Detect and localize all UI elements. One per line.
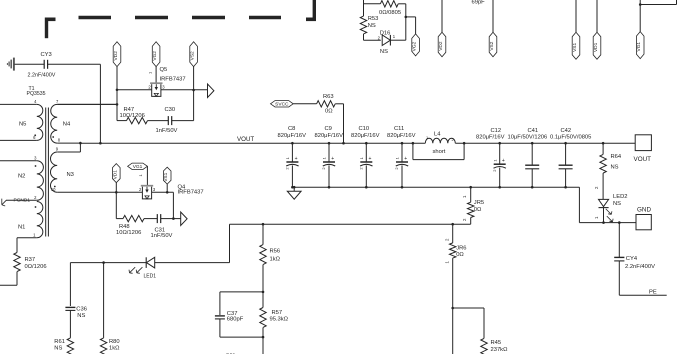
- svg-text:VG1: VG1: [636, 42, 642, 52]
- node C10 top: [365, 142, 368, 145]
- capacitor C37: [215, 311, 244, 323]
- svg-text:10: 10: [51, 187, 56, 192]
- transformer winding N3: [50, 143, 116, 192]
- wire: [48, 64, 101, 143]
- svg-text:IRFB7437: IRFB7437: [178, 190, 204, 196]
- node pin8-9: [79, 142, 82, 145]
- svg-text:C42: C42: [561, 128, 572, 134]
- transistor Q4: [138, 174, 204, 199]
- capacitor C8: [278, 126, 307, 187]
- svg-text:3: 3: [153, 187, 156, 192]
- wire: [117, 89, 152, 91]
- svg-text:GND: GND: [637, 207, 651, 214]
- svg-text:2: 2: [594, 186, 599, 189]
- svg-text:VD1: VD1: [593, 42, 599, 52]
- wire: [57, 103, 117, 105]
- net flag VD1: [112, 164, 120, 183]
- node VD1: [115, 191, 118, 194]
- transistor Q5: [147, 67, 185, 96]
- svg-text:1: 1: [138, 174, 143, 177]
- svg-text:VS1: VS1: [163, 172, 169, 181]
- svg-text:2: 2: [394, 167, 399, 170]
- node C37 top: [262, 291, 265, 294]
- svg-text:NS: NS: [77, 313, 85, 319]
- wire: [364, 34, 381, 40]
- capacitor C36: [65, 307, 87, 320]
- resistor JR5: [462, 187, 484, 224]
- wire: [390, 4, 405, 40]
- svg-text:820μF/16V: 820μF/16V: [278, 133, 307, 139]
- wire: [173, 218, 180, 220]
- capacitor C12: [476, 128, 506, 187]
- net flag VG1: [128, 163, 148, 170]
- svg-text:R64: R64: [611, 154, 622, 160]
- node LED2 bottom: [602, 221, 605, 224]
- net flag VS2: [489, 32, 497, 57]
- wire: [492, 0, 494, 32]
- svg-text:820μF/16V: 820μF/16V: [315, 133, 344, 139]
- svg-text:1: 1: [426, 135, 429, 140]
- svg-text:3: 3: [34, 155, 37, 160]
- node C12 bottom: [498, 186, 501, 189]
- svg-text:N3: N3: [67, 172, 74, 178]
- wire: [193, 67, 195, 90]
- svg-text:8: 8: [58, 138, 61, 143]
- svg-text:R56: R56: [270, 248, 281, 254]
- net flag VG2: [152, 42, 160, 67]
- wire: [220, 336, 263, 338]
- svg-text:2.2nF/400V: 2.2nF/400V: [625, 264, 655, 270]
- svg-text:N1: N1: [18, 225, 25, 231]
- wire: [0, 272, 17, 286]
- svg-text:R57: R57: [272, 310, 283, 316]
- inductor L4: [425, 131, 455, 143]
- svg-text:2: 2: [321, 167, 326, 170]
- port GND: [636, 207, 651, 230]
- node L4 left: [412, 142, 415, 145]
- wire: [229, 224, 231, 262]
- svg-text:680pF: 680pF: [227, 317, 244, 323]
- svg-text:2: 2: [285, 167, 290, 170]
- wire: [220, 291, 263, 293]
- node C11 bottom: [401, 186, 404, 189]
- wire: [103, 263, 105, 338]
- svg-text:C36: C36: [76, 307, 87, 313]
- svg-text:R37: R37: [25, 257, 36, 263]
- transformer T1 core: [27, 86, 49, 237]
- node C8 bottom: [291, 186, 294, 189]
- node C42 top: [564, 142, 567, 145]
- svg-text:2: 2: [139, 187, 142, 192]
- node JR6 top: [451, 223, 454, 226]
- svg-text:PE: PE: [649, 290, 657, 296]
- node LED1 left: [102, 261, 105, 264]
- svg-text:VOUT: VOUT: [634, 156, 652, 163]
- wire: [452, 308, 454, 354]
- svg-text:JR5: JR5: [474, 200, 484, 206]
- node C12 top: [498, 142, 501, 145]
- node R63: [342, 142, 345, 145]
- net flag VG1: [636, 32, 644, 59]
- svg-text:C30: C30: [165, 107, 176, 113]
- node R56 top: [262, 223, 265, 226]
- node C41 top: [531, 142, 534, 145]
- svg-text:7: 7: [56, 99, 59, 104]
- node C37 bottom: [262, 336, 265, 339]
- capacitor C11: [387, 126, 416, 187]
- svg-text:PQ3535: PQ3535: [27, 91, 46, 97]
- net flag VS2: [190, 42, 198, 67]
- svg-text:+: +: [331, 156, 334, 162]
- svg-text:N5: N5: [19, 122, 26, 128]
- svg-text:1kΩ: 1kΩ: [270, 257, 281, 263]
- net flag VD2: [113, 42, 121, 67]
- off-page connector: [181, 212, 187, 226]
- label 69pF: [472, 0, 486, 5]
- wire: [640, 0, 676, 5]
- svg-text:10Ω/1206: 10Ω/1206: [116, 230, 141, 236]
- wire: [406, 17, 416, 34]
- svg-text:short: short: [433, 149, 446, 155]
- svg-text:237kΩ: 237kΩ: [491, 347, 509, 353]
- svg-text:9: 9: [56, 147, 59, 152]
- svg-text:1: 1: [393, 34, 396, 39]
- svg-text:SVCC: SVCC: [275, 102, 289, 108]
- node railA: [99, 142, 102, 145]
- svg-text:D16: D16: [380, 31, 391, 37]
- svg-text:4: 4: [34, 99, 37, 104]
- wire: [116, 67, 118, 121]
- net PGND1: [2, 198, 31, 206]
- svg-text:0Ω/1206: 0Ω/1206: [25, 264, 47, 270]
- svg-text:+: +: [502, 158, 505, 164]
- svg-text:NS: NS: [611, 165, 619, 171]
- wire: [262, 337, 264, 354]
- wire: [69, 310, 71, 338]
- svg-text:R48: R48: [119, 224, 130, 230]
- svg-text:R80: R80: [109, 339, 120, 345]
- wire: [116, 191, 142, 193]
- wire: [453, 308, 484, 338]
- svg-text:1: 1: [285, 156, 290, 159]
- node C31 right: [172, 217, 175, 220]
- svg-text:2: 2: [359, 167, 364, 170]
- resistor R47: [117, 107, 148, 124]
- svg-text:95.3kΩ: 95.3kΩ: [270, 316, 289, 322]
- svg-text:1: 1: [359, 156, 364, 159]
- node C41 bottom: [531, 186, 534, 189]
- wire: [292, 186, 579, 188]
- svg-text:L4: L4: [434, 131, 441, 137]
- svg-text:1kΩ: 1kΩ: [109, 346, 120, 352]
- wire: [161, 89, 207, 91]
- node CY4 top: [618, 221, 621, 224]
- LED LED1: [129, 257, 156, 279]
- svg-text:0Ω: 0Ω: [325, 108, 333, 114]
- node VS1: [166, 191, 169, 194]
- wire: [70, 262, 146, 264]
- resistor R56: [260, 224, 281, 292]
- wire short bypass: [413, 143, 464, 159]
- resistor R37: [14, 253, 47, 272]
- svg-text:C10: C10: [359, 126, 370, 132]
- net flag VD1: [593, 32, 601, 59]
- svg-text:3: 3: [162, 84, 165, 89]
- node L4 right: [463, 142, 466, 145]
- wire: [146, 166, 148, 185]
- svg-text:Q5: Q5: [160, 67, 168, 73]
- node JR5 top: [469, 186, 472, 189]
- svg-text:N4: N4: [63, 122, 71, 128]
- node R64 top: [602, 142, 605, 145]
- wire: [219, 319, 221, 337]
- wire: [155, 262, 230, 264]
- net flag VS1: [163, 167, 171, 184]
- svg-text:2: 2: [444, 238, 449, 241]
- node C9 top: [328, 142, 331, 145]
- wire: [166, 184, 168, 192]
- svg-text:0Ω: 0Ω: [474, 207, 482, 213]
- node VD2-pin2: [116, 89, 119, 92]
- svg-text:LED1: LED1: [144, 274, 157, 280]
- svg-text:1: 1: [322, 156, 327, 159]
- capacitor C10: [351, 126, 380, 187]
- capacitor C9: [315, 126, 344, 187]
- svg-text:VD1: VD1: [112, 170, 118, 180]
- resistor R63: [293, 94, 343, 143]
- svg-text:NS: NS: [380, 49, 388, 55]
- svg-text:VOUT: VOUT: [237, 136, 254, 143]
- capacitor CY4: [614, 223, 655, 296]
- transformer winding N5: [0, 99, 43, 141]
- port VOUT: [634, 135, 652, 163]
- resistor R61: [54, 338, 73, 354]
- wire: [230, 223, 471, 225]
- dashed module boundary: [46, 0, 316, 38]
- svg-text:JR6: JR6: [456, 246, 466, 252]
- resistor R80: [100, 338, 120, 354]
- node C42 bottom: [564, 186, 567, 189]
- wire: [172, 192, 174, 218]
- wire: [639, 0, 641, 32]
- svg-text:C41: C41: [528, 128, 539, 134]
- resistor R57: [260, 292, 289, 337]
- wire: [575, 0, 577, 32]
- svg-text:+: +: [295, 156, 298, 162]
- svg-text:C8: C8: [288, 126, 295, 132]
- svg-text:LED2: LED2: [613, 194, 628, 200]
- node ground stub: [293, 186, 296, 189]
- node C8 top: [291, 142, 294, 145]
- net VOUT rail: [80, 136, 635, 143]
- wire: [152, 191, 174, 193]
- transformer winding N1: [17, 202, 43, 253]
- svg-text:0Ω/0805: 0Ω/0805: [379, 10, 401, 16]
- svg-text:1nF/50V: 1nF/50V: [156, 128, 178, 134]
- svg-text:2.2nF/400V: 2.2nF/400V: [28, 73, 56, 79]
- wire: [596, 0, 598, 32]
- svg-text:+: +: [404, 156, 407, 162]
- svg-text:1: 1: [147, 71, 152, 74]
- net flag VD2: [438, 32, 446, 57]
- svg-text:1: 1: [444, 261, 449, 264]
- svg-text:10Ω/1206: 10Ω/1206: [120, 113, 145, 119]
- svg-text:2: 2: [34, 195, 37, 200]
- wire: [193, 90, 195, 121]
- wire: [69, 263, 71, 306]
- svg-text:PGND1: PGND1: [14, 198, 31, 204]
- svg-text:2: 2: [148, 84, 151, 89]
- node C10 bottom: [365, 186, 368, 189]
- LED LED2: [594, 186, 628, 223]
- svg-text:2: 2: [492, 169, 497, 172]
- svg-text:NS: NS: [613, 201, 621, 207]
- resistor R53: [360, 16, 378, 34]
- wire: [579, 187, 636, 222]
- svg-text:NS: NS: [368, 23, 376, 29]
- svg-text:R45: R45: [491, 340, 502, 346]
- svg-text:VG1: VG1: [133, 164, 143, 170]
- resistor R45: [481, 338, 508, 354]
- svg-text:CY4: CY4: [626, 256, 638, 262]
- svg-text:1: 1: [395, 156, 400, 159]
- svg-text:CY3: CY3: [41, 52, 52, 58]
- node VG1 branch: [639, 3, 642, 6]
- svg-text:820μF/16V: 820μF/16V: [476, 135, 505, 141]
- net flag VS1: [572, 32, 580, 59]
- transformer winding N4: [51, 99, 117, 143]
- svg-text:R53: R53: [368, 16, 379, 22]
- ground: [287, 187, 301, 199]
- svg-text:69pF: 69pF: [472, 0, 486, 5]
- capacitor CY3: [15, 52, 56, 79]
- ground: [7, 58, 13, 71]
- svg-text:R61: R61: [54, 339, 65, 345]
- svg-text:1: 1: [33, 233, 36, 238]
- node C9 bottom: [328, 186, 331, 189]
- off-page connector: [208, 84, 214, 98]
- svg-text:C9: C9: [325, 126, 332, 132]
- svg-text:C11: C11: [394, 126, 404, 132]
- svg-text:820μF/16V: 820μF/16V: [351, 133, 380, 139]
- svg-text:NS: NS: [54, 346, 62, 352]
- svg-text:820μF/16V: 820μF/16V: [387, 133, 416, 139]
- svg-text:1nF/50V: 1nF/50V: [151, 233, 173, 239]
- wire: [219, 292, 221, 315]
- svg-text:R63: R63: [323, 94, 334, 100]
- svg-text:+: +: [369, 156, 372, 162]
- capacitor C41: [508, 128, 548, 187]
- svg-text:10μF/50V/1206: 10μF/50V/1206: [508, 135, 548, 141]
- svg-text:1: 1: [594, 216, 599, 219]
- svg-text:VS2: VS2: [190, 51, 196, 60]
- svg-text:1: 1: [492, 159, 497, 162]
- resistor R64: [600, 143, 622, 199]
- svg-text:VD2: VD2: [113, 51, 119, 61]
- capacitor C42: [550, 128, 591, 187]
- svg-text:0Ω: 0Ω: [456, 252, 464, 258]
- svg-text:VS2: VS2: [489, 41, 495, 50]
- net flag VG2: [412, 34, 420, 56]
- wire: [363, 0, 365, 16]
- node R45 branch: [451, 307, 454, 310]
- svg-text:VD2: VD2: [438, 41, 444, 51]
- svg-text:IRFB7437: IRFB7437: [160, 76, 186, 82]
- node VD2-pin7: [116, 103, 119, 106]
- transformer winding N2: [0, 155, 43, 200]
- node VG2 branch: [405, 16, 408, 19]
- diode D16: [378, 31, 396, 55]
- wire: [115, 183, 117, 219]
- svg-text:VG2: VG2: [412, 41, 418, 51]
- svg-text:C12: C12: [491, 128, 502, 134]
- capacitor C31: [144, 214, 173, 239]
- svg-text:VS1: VS1: [572, 42, 578, 51]
- svg-text:VG2: VG2: [152, 51, 158, 61]
- node C11 top: [401, 142, 404, 145]
- svg-text:2: 2: [462, 218, 467, 221]
- capacitor C30: [148, 107, 194, 134]
- svg-text:N2: N2: [18, 174, 25, 180]
- wire: [155, 67, 157, 84]
- net PE: [619, 290, 666, 296]
- svg-text:1: 1: [462, 195, 467, 198]
- resistor 0R 0805: [364, 1, 406, 16]
- resistor R48: [116, 215, 144, 236]
- wire: [441, 0, 443, 32]
- resistor JR6: [444, 224, 466, 308]
- svg-text:0.1μF/50V/0805: 0.1μF/50V/0805: [550, 135, 591, 141]
- node VS2: [192, 89, 195, 92]
- net flag SVCC: [271, 101, 294, 108]
